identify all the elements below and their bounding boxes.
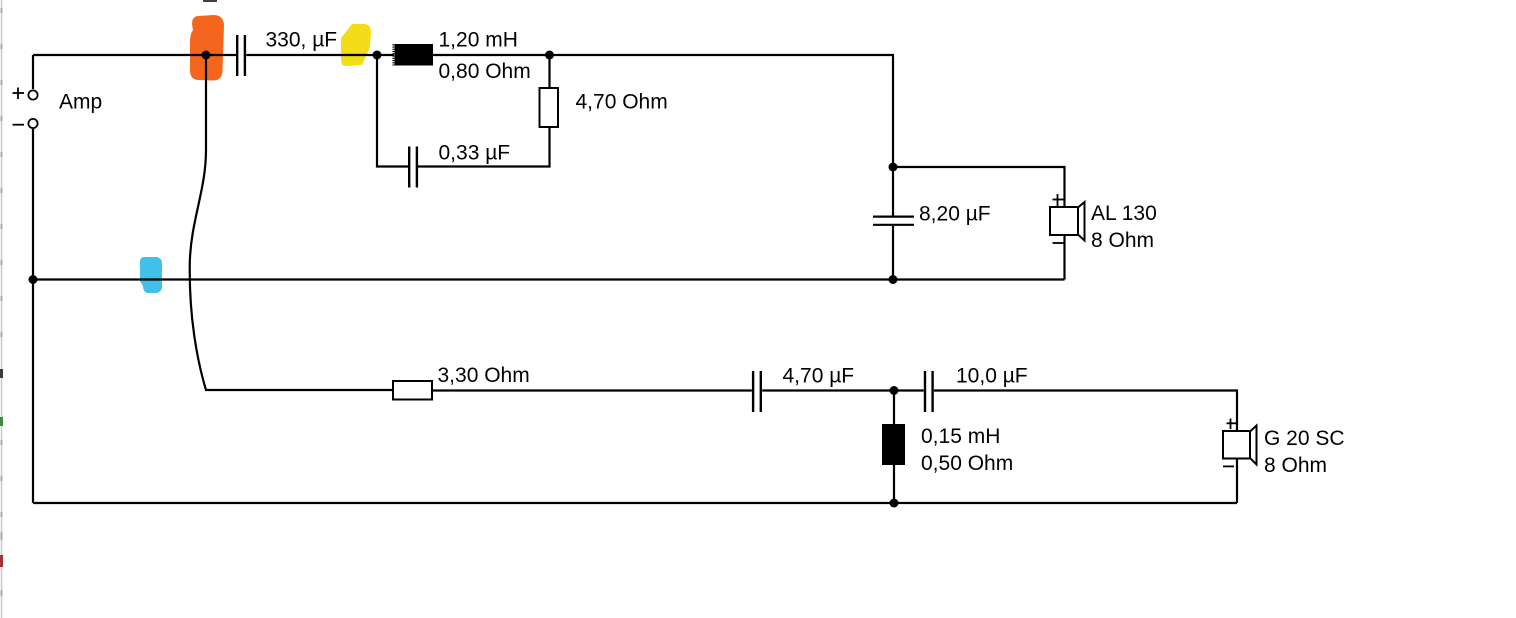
node F (middle rail at speaker column) [889, 275, 898, 284]
wire: node B to inductor left [377, 54, 394, 56]
capacitor C0.33 plates [409, 147, 417, 188]
speaker G20SC box [1223, 431, 1250, 459]
wire: node D down to cap C8.2 top plate [892, 167, 894, 216]
capacitor C8.2 plates [873, 217, 914, 225]
inductor L1.2 (black bar with hatched left end) [394, 44, 434, 66]
left window edge strip [0, 0, 3, 618]
wire: resistor R4.7 top to top rail [548, 55, 550, 88]
svg-text:10,0 µF: 10,0 µF [956, 365, 1028, 388]
svg-text:0,15 mH: 0,15 mH [921, 425, 1000, 448]
amp + terminal circle [28, 90, 37, 99]
resistor R3.3 [393, 381, 432, 400]
amp + sign [13, 88, 25, 100]
svg-text:8,20 µF: 8,20 µF [919, 203, 991, 226]
svg-text:3,30 Ohm: 3,30 Ohm [438, 364, 530, 387]
wire: node E through to cap C10 left plate happens above; cap C10 right to right turn down to speaker G20SC [934, 391, 1237, 432]
wire: resistor R3.3 to cap C4.7 [432, 389, 752, 391]
node G (middle rail at amp column) [29, 275, 38, 284]
wire: speaker AL130 bottom down to middle rail [1063, 235, 1065, 280]
node B [373, 51, 382, 60]
speaker AL130 minus mark [1053, 242, 1064, 244]
wire: cap C8.2 bottom plate down to middle rail [892, 226, 894, 280]
svg-text:G 20 SC: G 20 SC [1264, 427, 1345, 450]
wire: 0,33uF branch right side up to resistor R4.7 [418, 127, 550, 167]
blue highlight blob [140, 257, 162, 293]
wire: left drop from top rail to + terminal [32, 55, 34, 89]
svg-text:Amp: Amp [59, 91, 102, 114]
svg-text:8 Ohm: 8 Ohm [1091, 229, 1154, 252]
wire: speaker G20SC bottom to bottom rail [1236, 458, 1238, 503]
wire: cap C4.7 to node E [762, 389, 923, 391]
wire: middle rail [33, 278, 1065, 280]
speaker G20SC minus mark [1223, 465, 1234, 467]
node C [545, 51, 554, 60]
orange highlight blob [190, 15, 224, 81]
top edge artifact [203, 0, 217, 2]
node A (under orange blob) [202, 51, 211, 60]
node E [890, 386, 899, 395]
capacitor C4.7 plates [753, 371, 761, 412]
wire: 0,33uF branch left side [377, 55, 408, 167]
svg-text:0,33 µF: 0,33 µF [439, 142, 511, 165]
wire: bottom branch to resistor R3.3 [205, 389, 393, 391]
speaker AL130 plus mark [1053, 194, 1066, 206]
capacitor C10 plates [925, 371, 933, 412]
wire: below - terminal down to bottom rail [32, 129, 34, 503]
speaker G20SC cone [1250, 426, 1257, 465]
svg-text:0,50 Ohm: 0,50 Ohm [921, 452, 1013, 475]
speaker G20SC plus mark [1227, 419, 1238, 430]
amp - sign [13, 124, 25, 126]
wire: inductor L0.15 down to bottom rail [893, 465, 895, 503]
wire: bottom rail [33, 502, 1237, 504]
capacitor C330 plates [237, 35, 245, 76]
amp - terminal circle [28, 119, 37, 128]
svg-text:4,70 Ohm: 4,70 Ohm [576, 91, 668, 114]
yellow highlight blob [341, 24, 371, 66]
svg-text:330, µF: 330, µF [266, 29, 338, 52]
wire: cap C330 right to node B [246, 54, 377, 56]
speaker AL130 cone [1078, 202, 1085, 241]
svg-text:8 Ohm: 8 Ohm [1264, 454, 1327, 477]
wire: node D right to speaker AL130 [893, 167, 1065, 207]
node H (bottom rail at inductor column) [890, 499, 899, 508]
wire: node E down to inductor L0.15 [893, 391, 895, 425]
speaker AL130 box [1050, 207, 1078, 235]
svg-text:4,70 µF: 4,70 µF [783, 365, 855, 388]
svg-text:1,20 mH: 1,20 mH [439, 29, 518, 52]
wire: curved drop from node A to bottom branch [190, 55, 206, 390]
wire: top rail from amp + to cap C330 [33, 55, 1237, 503]
inductor L0.15 [882, 424, 905, 465]
svg-text:0,80 Ohm: 0,80 Ohm [439, 60, 531, 83]
wire: inductor right to node C and on to right turn, down to node D [433, 55, 893, 167]
svg-text:AL 130: AL 130 [1091, 202, 1157, 225]
resistor R4.7 [540, 88, 559, 127]
node D [889, 163, 898, 172]
